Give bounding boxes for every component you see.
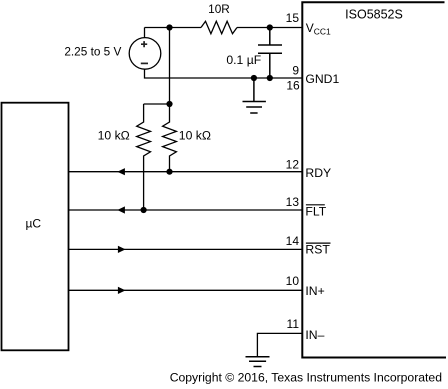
svg-text:11: 11 xyxy=(287,317,300,331)
svg-text:µC: µC xyxy=(26,217,42,231)
svg-text:Copyright © 2016, Texas Instru: Copyright © 2016, Texas Instruments Inco… xyxy=(170,370,442,384)
wire source top stub xyxy=(144,28,146,38)
IC box U1 ISO5852S xyxy=(302,2,446,357)
resistor R2 10 kOhm left xyxy=(137,104,151,210)
wire pull-up branch horizontal xyxy=(144,103,170,105)
svg-text:14: 14 xyxy=(286,234,300,248)
wire RST xyxy=(69,248,303,250)
svg-text:12: 12 xyxy=(286,158,300,172)
capacitor C1 0.1 µF xyxy=(258,28,282,79)
arrow IN+ right xyxy=(118,287,126,294)
svg-text:VCC1: VCC1 xyxy=(306,21,331,37)
plus symbol xyxy=(141,41,147,47)
svg-text:IN+: IN+ xyxy=(305,284,324,298)
wire VCC top rail xyxy=(145,27,303,29)
wire source bottom stub xyxy=(145,69,303,78)
arrow RST right xyxy=(118,246,126,253)
minus symbol xyxy=(141,62,148,64)
wire FLT xyxy=(69,209,303,211)
ground symbol GND1 xyxy=(243,78,266,113)
svg-text:RST: RST xyxy=(305,243,330,257)
resistor R3 10 kOhm right xyxy=(163,104,177,172)
wire IN- stub xyxy=(257,333,302,356)
arrow FLT left xyxy=(117,206,125,213)
wire IN+ xyxy=(69,289,303,291)
svg-text:10: 10 xyxy=(286,274,300,288)
junction dot pull-up branch xyxy=(166,101,172,107)
junction dot RDY pull-up xyxy=(166,169,172,175)
svg-text:GND1: GND1 xyxy=(305,72,339,86)
wire VCC vertical drop to pull-ups xyxy=(169,28,171,105)
svg-text:ISO5852S: ISO5852S xyxy=(345,8,403,22)
svg-text:IN–: IN– xyxy=(305,328,324,342)
ground symbol IN- xyxy=(246,357,270,367)
junction dot capacitor bottom xyxy=(267,75,273,81)
svg-text:15: 15 xyxy=(286,11,300,25)
arrow RDY left xyxy=(117,168,125,175)
svg-text:10R: 10R xyxy=(208,2,230,16)
microcontroller box µC xyxy=(2,103,69,351)
svg-text:9: 9 xyxy=(292,63,299,77)
junction dot VCC rail xyxy=(166,24,172,30)
junction dot ground tap xyxy=(251,75,257,81)
wire RDY xyxy=(69,171,303,173)
svg-text:RDY: RDY xyxy=(305,166,331,180)
svg-text:0.1 µF: 0.1 µF xyxy=(226,53,261,67)
svg-text:10 kΩ: 10 kΩ xyxy=(98,128,130,142)
svg-text:2.25 to 5 V: 2.25 to 5 V xyxy=(64,44,121,58)
resistor R1 10R xyxy=(201,21,237,33)
svg-text:FLT: FLT xyxy=(305,204,326,218)
voltage source V1 2.25 to 5 V xyxy=(129,38,161,70)
svg-text:10 kΩ: 10 kΩ xyxy=(179,128,211,142)
junction dot capacitor top xyxy=(267,24,273,30)
svg-text:13: 13 xyxy=(286,195,300,209)
svg-text:16: 16 xyxy=(286,79,300,93)
junction dot FLT pull-up xyxy=(141,207,147,213)
